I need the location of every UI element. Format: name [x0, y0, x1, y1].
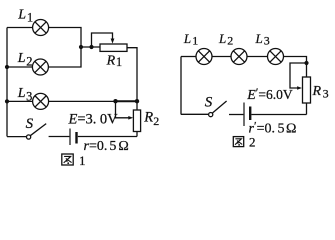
svg-text:L: L: [183, 31, 191, 46]
svg-text:2: 2: [26, 54, 32, 68]
svg-text:R: R: [312, 84, 322, 99]
svg-text:1: 1: [27, 11, 33, 25]
svg-text:L: L: [218, 31, 226, 46]
svg-text:2: 2: [153, 114, 159, 128]
svg-text:L: L: [17, 86, 26, 101]
svg-text:S: S: [205, 94, 213, 110]
svg-text:L: L: [17, 8, 26, 23]
svg-text:L: L: [255, 31, 263, 46]
svg-text:r′=0.5Ω: r′=0.5Ω: [249, 119, 297, 137]
svg-text:2: 2: [249, 135, 256, 150]
svg-text:L: L: [17, 51, 26, 66]
svg-text:1: 1: [116, 55, 122, 69]
svg-text:1: 1: [192, 34, 198, 48]
svg-text:R: R: [106, 53, 116, 68]
svg-text:R: R: [143, 109, 153, 125]
svg-text:1: 1: [79, 153, 86, 168]
svg-text:3: 3: [323, 87, 329, 101]
svg-text:E=3.0V: E=3.0V: [68, 112, 119, 128]
svg-text:E′=6.0V: E′=6.0V: [246, 85, 293, 103]
svg-text:r=0.5Ω: r=0.5Ω: [84, 139, 129, 154]
svg-text:2: 2: [227, 34, 233, 48]
svg-text:3: 3: [26, 90, 32, 104]
svg-text:S: S: [26, 116, 34, 132]
svg-text:3: 3: [264, 34, 270, 48]
